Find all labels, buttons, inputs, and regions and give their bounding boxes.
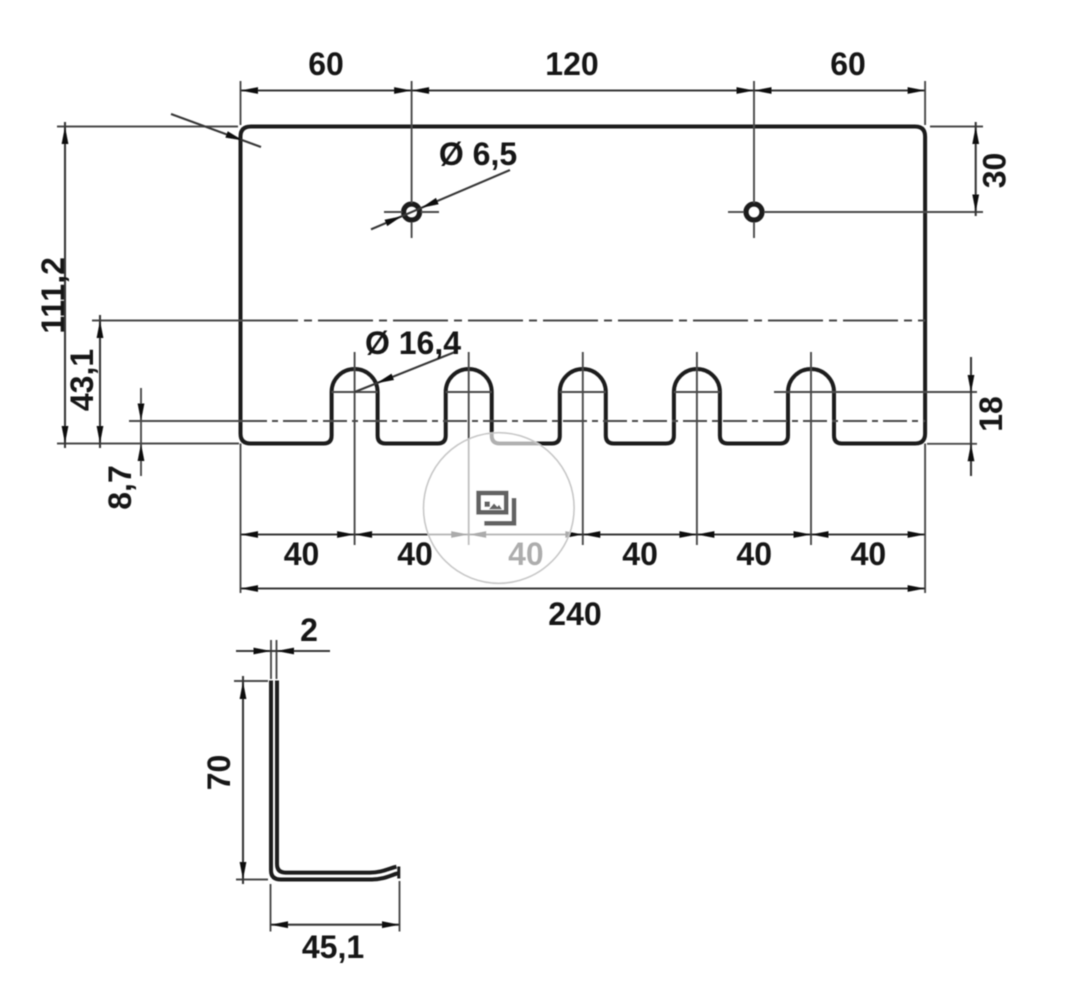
- svg-text:45,1: 45,1: [302, 929, 364, 965]
- svg-text:2: 2: [300, 612, 318, 648]
- extension lines: [57, 81, 983, 593]
- arrowheads: top 60/120/60, 40 row, 240, 111,2, 43,1, 30, 18, 8,7, leaders: [62, 87, 980, 592]
- hole 1 (Ø6,5 left): [404, 204, 420, 220]
- svg-text:40: 40: [397, 536, 433, 572]
- svg-text:Ø 6,5: Ø 6,5: [439, 136, 517, 172]
- svg-text:8,7: 8,7: [102, 465, 138, 509]
- svg-text:40: 40: [284, 536, 320, 572]
- svg-text:Ø 16,4: Ø 16,4: [365, 325, 461, 361]
- dim 60/120/60 top: [241, 89, 926, 91]
- svg-text:30: 30: [977, 153, 1013, 189]
- dim 43,1: [99, 315, 101, 448]
- svg-text:40: 40: [622, 536, 658, 572]
- svg-text:111,2: 111,2: [35, 257, 71, 334]
- svg-text:60: 60: [830, 46, 866, 82]
- scallop center lines vertical: [332, 391, 378, 393]
- L-profile section view: [271, 681, 399, 880]
- dim 30: [975, 122, 977, 216]
- dim 111,2: [64, 122, 66, 448]
- svg-text:240: 240: [548, 596, 601, 632]
- leader Ø6,5: [371, 170, 510, 229]
- center line horizontal y=320: [92, 212, 983, 545]
- dim 40 x6: [241, 533, 926, 535]
- center line horizontal y=421 (scallop depth): [129, 420, 243, 422]
- dim 240: [241, 587, 926, 589]
- svg-text:120: 120: [545, 46, 598, 82]
- arrowheads: section dims 2, 70, 45,1: [240, 648, 400, 929]
- L outer face: [271, 681, 398, 880]
- svg-text:60: 60: [308, 46, 344, 82]
- section dimension lines: [236, 651, 400, 925]
- section extension lines: [234, 640, 400, 932]
- svg-text:40: 40: [851, 536, 887, 572]
- watermark circle: [424, 433, 575, 584]
- svg-text:40: 40: [736, 536, 772, 572]
- hole 2 crosshair + 30 extension: [728, 211, 744, 213]
- L inner face: [277, 681, 397, 873]
- svg-text:70: 70: [201, 755, 237, 791]
- svg-text:18: 18: [973, 396, 1009, 432]
- hole 1 crosshair: [384, 211, 402, 213]
- L tip end cap: [397, 867, 400, 879]
- svg-text:43,1: 43,1: [64, 349, 100, 411]
- dim 18: [970, 357, 972, 476]
- leader Ø16,4: [355, 352, 455, 392]
- watermark image icon: [479, 493, 514, 523]
- plate outline (main view, 240x111.2 bracket with 5 scallops): [241, 127, 926, 444]
- hole 2 (Ø6,5 right): [746, 204, 762, 220]
- corner leader: [171, 114, 261, 147]
- dimension lines: [65, 91, 976, 589]
